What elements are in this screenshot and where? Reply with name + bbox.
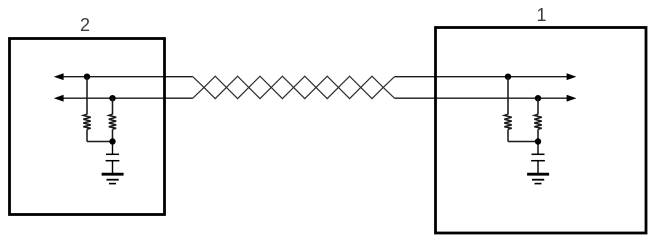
resistor: left box, terminator to net B xyxy=(109,98,116,141)
junction dot: right box bottom wire xyxy=(535,95,541,101)
resistor: left box, terminator to net A xyxy=(83,77,90,142)
wire: right box bottom horizontal (net B, right) xyxy=(395,97,569,99)
twisted pair conductor 2 xyxy=(193,76,395,98)
wire: right box top horizontal (net A, right) xyxy=(395,76,569,78)
arrowhead right top xyxy=(567,73,577,80)
arrowhead right bottom xyxy=(567,95,577,102)
resistor: right box, terminator to net B xyxy=(534,98,541,141)
wire: left box bottom horizontal (net B, left) xyxy=(57,97,193,99)
ground: left box xyxy=(102,174,124,183)
wire: right box resistor bottoms join xyxy=(508,141,538,143)
junction dot: right box top wire xyxy=(505,74,511,80)
twisted pair conductor 1 xyxy=(193,76,395,98)
capacitor: right box xyxy=(531,142,545,175)
wire: left box top horizontal (net A, left) xyxy=(57,76,193,78)
arrowhead left top xyxy=(54,73,64,80)
ground: right box xyxy=(527,174,549,183)
device box 2 (left node) xyxy=(10,39,165,215)
capacitor: left box xyxy=(106,142,120,175)
arrowhead left bottom xyxy=(54,95,64,102)
device box 1 (right node) xyxy=(436,28,647,234)
junction dot: left box resistor common node xyxy=(109,138,115,144)
junction dot: left box bottom wire xyxy=(109,95,115,101)
wire: left box resistor bottoms join xyxy=(87,141,113,143)
junction dot: right box resistor common node xyxy=(535,138,541,144)
junction dot: left box top wire xyxy=(84,74,90,80)
svg-text:2: 2 xyxy=(80,15,90,35)
svg-text:1: 1 xyxy=(536,5,546,25)
resistor: right box, terminator to net A xyxy=(504,77,511,142)
